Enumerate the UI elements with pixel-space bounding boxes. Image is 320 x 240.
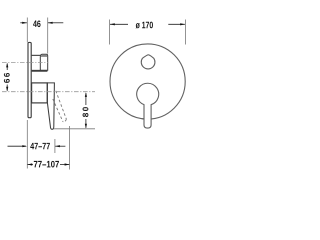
label 80 (rotated) — [83, 107, 89, 117]
lever keyhole (hub circle + stem) front — [137, 83, 159, 128]
extension line left for dia 170 — [109, 20, 111, 45]
extension line x=54.9 (47-77 right) — [54, 139, 56, 153]
white halo behind dia label — [133, 20, 157, 29]
diverter knob (front, teardrop) — [141, 55, 155, 69]
lever hub rosette (side) — [32, 83, 48, 103]
diverter knob centerline — [2, 62, 48, 64]
diverter knob side view: cap — [40, 54, 47, 70]
label 77-107 — [34, 161, 59, 168]
dia 170 dimension line right + arrow — [168, 23, 185, 25]
extension line right for dia 170 — [184, 20, 186, 45]
knob cap shading — [41, 55, 48, 57]
label dia 170 — [136, 22, 153, 29]
dim 80 bottom extension line — [54, 128, 96, 130]
extension line left for dim 46 — [26, 18, 28, 43]
rotated lever (dashed) inner edge — [53, 99, 63, 122]
label 46 — [33, 20, 40, 27]
dimension line 46 left tail + arrow — [20, 22, 27, 24]
dim 47-77: left tail + arrow (pointing right) — [8, 145, 27, 147]
extension line x=69.5 (77-107 right) — [69, 126, 71, 170]
dim 66 vertical line + arrows — [6, 64, 8, 71]
dim 47-77: right tail + arrow (pointing left) — [55, 145, 65, 147]
dia 170 dimension line left + arrow — [110, 23, 128, 25]
diverter knob side view: sleeve top line — [32, 54, 41, 56]
lever (side, hanging down, tapered) — [47, 83, 54, 129]
dim 80 vertical line + arrows — [85, 93, 87, 105]
label 66 (rotated) — [4, 73, 10, 83]
wall plate (edge-on) — [28, 42, 31, 117]
label 47-77 — [30, 143, 50, 149]
dimension line 46 right tail + arrow — [48, 22, 63, 24]
rotated lever (dashed) outer edge — [56, 91, 67, 119]
rotated lever dashed tip — [63, 119, 66, 122]
extension line right for dim 46 — [47, 18, 49, 54]
dim 77-107: line + inside arrows pointing outward — [28, 164, 34, 166]
escutcheon plate circle (front) — [110, 44, 185, 119]
diverter knob side view: bottom line — [32, 70, 48, 72]
lever hub centerline — [2, 91, 95, 93]
extension line x=27.3 (wall face, lower dims) — [26, 120, 28, 169]
